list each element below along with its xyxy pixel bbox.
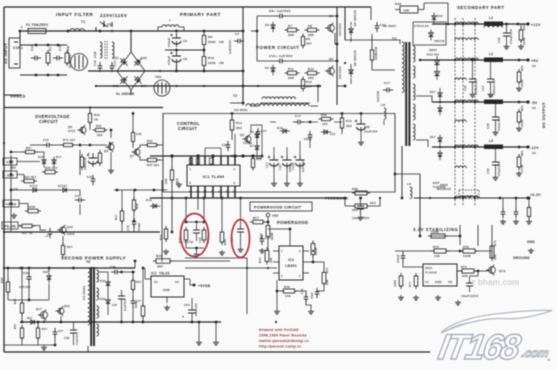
svg-text:C5: C5 (183, 39, 187, 43)
svg-text:L2: L2 (489, 52, 493, 56)
svg-text:GROUND: GROUND (513, 256, 530, 260)
op-amp U2 ISC1 TL431C (423, 264, 457, 286)
svg-text:L: L (21, 25, 23, 29)
resistor R66 (23, 147, 38, 154)
wire secondary +3.3 rail (414, 197, 528, 199)
wire T3 bottom (401, 146, 404, 199)
svg-text:330K: 330K (208, 40, 216, 44)
svg-text:D3?: D3? (27, 317, 33, 320)
wire fuse out (46, 30, 69, 33)
transistor Q13 (486, 265, 506, 276)
resistor R08 (352, 187, 370, 195)
wire overvoltage rail (4, 107, 163, 109)
svg-text:R12: R12 (306, 80, 312, 84)
label 10-0007 (383, 24, 396, 28)
capacitor C35 (357, 197, 364, 215)
label 220V/115V (100, 13, 127, 18)
resistor R12 (301, 77, 312, 92)
terminal +3.3V (526, 193, 541, 200)
ground R24 (219, 250, 225, 255)
capacitor C10 (269, 54, 293, 63)
svg-text:C29: C29 (486, 123, 490, 129)
svg-text:D10: D10 (437, 14, 443, 18)
winding sec -5 (455, 100, 478, 122)
label +5VSB2 (183, 240, 193, 244)
svg-text:14: 14 (218, 191, 222, 194)
ground caps row2 (284, 181, 290, 186)
wire T3 feed (344, 7, 346, 40)
diode D17 (52, 155, 62, 167)
svg-text:1000uF/16V: 1000uF/16V (493, 79, 496, 95)
wire powergood feed (185, 258, 247, 314)
capacitor C46 (45, 228, 52, 238)
ground R49 (518, 44, 524, 49)
resistor R19 (159, 226, 168, 242)
resistor R41 (258, 248, 273, 265)
svg-text:15K: 15K (325, 279, 329, 285)
svg-text:C14: C14 (30, 45, 34, 51)
svg-text:C48: C48 (136, 133, 142, 136)
boxed +3.3V label (3, 200, 19, 207)
wire to bridge (112, 30, 132, 52)
svg-text:D6: D6 (250, 130, 254, 134)
svg-text:Q6: Q6 (68, 125, 72, 129)
wire pson net (18, 226, 63, 246)
junction dots rail3 (499, 197, 518, 200)
terminal +5V (526, 58, 538, 68)
capacitor C20 (278, 155, 292, 172)
wire sb gnd (198, 321, 221, 340)
svg-text:R48: R48 (256, 157, 262, 161)
svg-text:L6: L6 (407, 182, 411, 186)
svg-text:C7: C7 (235, 32, 239, 36)
capacitor C84 (304, 131, 312, 141)
capacitor C13p (376, 81, 393, 102)
svg-text:D4: D4 (265, 66, 269, 70)
op-amp U3 IC3 LM393 (273, 246, 309, 280)
svg-text:35R: 35R (462, 274, 468, 278)
wire q7 (140, 145, 163, 160)
terminal -5V (526, 100, 537, 110)
svg-text:C6: C6 (183, 57, 187, 61)
svg-text:D2?N?: D2?N? (58, 185, 68, 188)
label FEEDBACK (325, 197, 349, 201)
label 5VSB wire (130, 271, 135, 273)
svg-text:10K: 10K (434, 254, 440, 258)
red ellipse highlight 2 (232, 220, 250, 258)
wire vertical bus x337 (336, 7, 338, 105)
svg-text:330K: 330K (208, 61, 216, 65)
diode D14 (321, 130, 336, 136)
wire C26 (360, 112, 363, 140)
wire T1 out (84, 30, 101, 33)
terminal +5V pg (266, 213, 279, 222)
capacitor C26 10uF (355, 119, 378, 134)
svg-text:1C2: 1C2 (330, 133, 336, 136)
diode D18 (38, 155, 46, 167)
label SECONDARY PART (457, 5, 505, 10)
resistor R75 (431, 245, 449, 258)
svg-text:R5?: R5? (42, 328, 48, 331)
svg-text:10K: 10K (285, 294, 291, 298)
svg-text:C38: C38 (64, 337, 70, 340)
svg-text:C84Q: C84Q (304, 138, 312, 141)
svg-text:L4: L4 (489, 94, 493, 98)
label credits line1 (259, 328, 299, 332)
wire caps mid (165, 49, 204, 52)
svg-text:10uF/100V: 10uF/100V (461, 294, 479, 298)
resistor R28 (42, 166, 58, 174)
svg-text:DC OUTPUT: DC OUTPUT (541, 102, 546, 128)
red ellipse highlight 1 (181, 214, 209, 257)
svg-text:F10F040: F10F040 (433, 185, 446, 189)
resistor R53 (61, 243, 73, 258)
transformer T6 (83, 260, 99, 352)
wire filter top row (20, 44, 67, 47)
ground R72 (398, 295, 404, 300)
svg-text:IC3: IC3 (288, 258, 294, 262)
svg-text:C14: C14 (295, 114, 301, 118)
svg-text:A733: A733 (68, 129, 76, 133)
svg-text:R17: R17 (114, 214, 118, 220)
pin numbers under IC (189, 191, 236, 194)
svg-text:C10+ 1uF/50V: C10+ 1uF/50V (269, 54, 293, 58)
boxed PS-ON label (2, 222, 18, 229)
wire R25 in (130, 260, 156, 268)
wire T6 top (63, 267, 88, 270)
resistor R18 (132, 197, 139, 213)
resistor R56 (14, 298, 24, 316)
ground Q5 (108, 168, 114, 173)
svg-text:5A: 5A (532, 106, 536, 110)
resistor R44 (145, 139, 160, 147)
svg-text:R5?: R5? (14, 298, 17, 304)
svg-text:R8: R8 (308, 24, 312, 28)
resistor R11 (285, 67, 300, 80)
resistor R6 (301, 34, 312, 49)
ground TL431 (435, 295, 441, 300)
resistor R71 (490, 240, 497, 261)
resistor R29 (98, 150, 101, 166)
svg-text:R1: R1 (48, 47, 52, 51)
svg-text:470uF/16V: 470uF/16V (498, 161, 501, 176)
junction dots IC bus (170, 154, 254, 157)
resistor R46 (319, 113, 334, 126)
label 10uF/100V (461, 294, 479, 298)
svg-text:10K: 10K (269, 257, 273, 263)
wire ov2 (105, 112, 134, 148)
svg-text:POWERGOOD CIRCUIT: POWERGOOD CIRCUIT (254, 206, 302, 210)
svg-text:560R: 560R (270, 232, 274, 240)
svg-text:1uF/50V: 1uF/50V (302, 161, 305, 172)
svg-text:D1?: D1? (56, 155, 62, 159)
capacitor C32 (19, 271, 32, 289)
wire q5 (110, 152, 112, 168)
ground C35 (358, 215, 364, 220)
svg-text:C64: C64 (184, 303, 190, 307)
junction dots rail-5 (494, 101, 520, 104)
svg-text:L3: L3 (489, 139, 493, 143)
svg-text:R5?: R5? (14, 323, 17, 329)
svg-text:R19: R19 (159, 234, 163, 240)
capacitor C7 (228, 32, 244, 54)
wire caps row (257, 141, 300, 181)
junction dots C7 (242, 30, 245, 88)
capacitor C64 (182, 298, 198, 320)
svg-text:D8 1N4148: D8 1N4148 (353, 50, 357, 66)
resistor R22 (178, 227, 188, 243)
ground 3v3 b (513, 219, 519, 224)
resistor R59 (36, 325, 47, 341)
diode SB02 (437, 183, 451, 191)
connector CON1 (9, 38, 23, 68)
resistor R13 (340, 115, 352, 131)
capacitor C15A (291, 155, 305, 172)
svg-text:8: 8 (190, 182, 192, 185)
label watermark site (471, 277, 519, 287)
svg-text:ISC1: ISC1 (425, 266, 433, 270)
svg-text:+5V?B: +5V?B (183, 240, 193, 244)
wire driver mid (230, 102, 244, 105)
label plus mark (547, 358, 551, 364)
resistor R27 (164, 167, 179, 184)
inductor L2 (484, 52, 503, 62)
svg-text:R58: R58 (1, 277, 4, 283)
svg-text:D9 1N4148: D9 1N4148 (353, 10, 357, 26)
diode D5 (265, 22, 275, 32)
svg-text:C945: C945 (67, 232, 75, 236)
svg-text:10uF/50V: 10uF/50V (125, 298, 127, 311)
svg-text:GO-3000S: GO-3000S (83, 286, 86, 300)
svg-text:100R: 100R (522, 38, 526, 45)
svg-text:5A: 5A (532, 64, 536, 68)
svg-text:IT168: IT168 (436, 327, 524, 367)
wire frame top edge (4, 6, 371, 8)
wire R16 (371, 7, 395, 70)
resistor R43 (395, 2, 424, 13)
winding sec 3.3 (455, 196, 478, 198)
svg-text:INPUT FILTER: INPUT FILTER (56, 12, 94, 17)
svg-text:470uF: 470uF (167, 38, 171, 47)
label 4x 1N5406 (116, 92, 134, 96)
wire primary low rail (96, 85, 318, 87)
svg-text:D21: D21 (113, 56, 119, 60)
wire primary mid rail (88, 70, 243, 72)
wire stab nets (395, 225, 492, 276)
resistor R35 (93, 124, 108, 137)
svg-text:http:∕∕pavouk.comp.cz: http:∕∕pavouk.comp.cz (259, 345, 301, 349)
label SECOND POWER SUPPLY (61, 256, 126, 261)
svg-text:R44: R44 (147, 139, 153, 143)
label OVERVOLTAGE CIRCUIT (35, 114, 70, 124)
svg-text:+5VSB: +5VSB (198, 284, 211, 288)
svg-text:R10: R10 (208, 56, 214, 60)
resistor R51 (517, 105, 524, 127)
wire ctrl mids (261, 121, 342, 158)
wire ov row2 (30, 144, 107, 147)
dashed separator 2 (462, 18, 464, 205)
svg-text:C3?: C3? (222, 144, 228, 147)
terminal -12V (526, 145, 539, 155)
capacitor C41 (87, 175, 95, 185)
svg-text:R25: R25 (156, 254, 162, 258)
resistor R76 560R (428, 230, 448, 238)
svg-text:Q13: Q13 (64, 304, 70, 308)
svg-text:+5V: +5V (531, 59, 539, 63)
wire secondary -12 rail (416, 140, 528, 147)
svg-text:C32: C32 (23, 271, 29, 275)
resistor on pin 1 (189, 158, 192, 164)
svg-text:+5V: +5V (272, 214, 279, 218)
junction dots secondary rails (419, 23, 477, 200)
terminal +5VSB (190, 279, 211, 288)
diode D34 (27, 317, 38, 324)
label C8 (269, 9, 291, 13)
wire feedback node (344, 173, 420, 206)
svg-text:Q5: Q5 (104, 149, 108, 153)
svg-text:5K6: 5K6 (370, 201, 376, 205)
label 3.3V STABILIZING (413, 227, 458, 232)
svg-text:1N4148: 1N4148 (434, 40, 445, 43)
inductor L4 (484, 94, 503, 104)
svg-text:C?5: C?5 (127, 225, 130, 231)
capacitor C40b (131, 297, 142, 307)
inductor LR (381, 103, 386, 125)
wire T3 primary top (345, 40, 400, 44)
svg-text:+C: +C (45, 235, 49, 238)
label credits line3 (259, 339, 309, 343)
resistor R14 (230, 117, 242, 133)
ground caps row1 (271, 181, 277, 186)
wire r66 (10, 151, 44, 157)
resistor R9 (202, 33, 224, 48)
svg-text:78L05: 78L05 (159, 272, 170, 276)
wire secondary +12 rail (432, 23, 528, 25)
wire IC top bus (150, 155, 262, 157)
capacitor C10u (466, 276, 473, 292)
svg-text:C20: C20 (278, 164, 282, 170)
inductor T mag-amp (459, 190, 479, 199)
svg-text:C30: C30 (497, 37, 501, 43)
svg-text:5A: 5A (532, 151, 536, 155)
svg-text:166R/2W: 166R/2W (374, 47, 378, 60)
svg-text:CON1: CON1 (13, 46, 23, 50)
svg-text:C19: C19 (43, 138, 49, 142)
svg-text:+5V: +5V (12, 187, 18, 191)
svg-text:Q7: Q7 (130, 154, 134, 158)
svg-text:C28: C28 (486, 168, 490, 174)
svg-text:C15A: C15A (291, 162, 295, 170)
capacitor C40 (311, 288, 319, 299)
wire R43 right (424, 3, 448, 24)
svg-text:IC1 TL494: IC1 TL494 (203, 174, 225, 179)
svg-text:R46: R46 (321, 113, 327, 117)
logo .com text (520, 346, 550, 360)
svg-text:CIRCUIT: CIRCUIT (178, 126, 197, 131)
label +5V node (12, 187, 18, 191)
svg-text:15R: 15R (493, 254, 497, 260)
resistor R33 (21, 175, 37, 183)
ground C27b (259, 248, 265, 253)
svg-text:39R: 39R (288, 76, 294, 80)
svg-text:100R: 100R (463, 254, 471, 258)
resistor R7 (285, 24, 300, 37)
diode SB04 (420, 48, 440, 80)
ground caps row3 (297, 181, 303, 186)
svg-text:mailto:pavouk@dkomp.cz: mailto:pavouk@dkomp.cz (259, 339, 309, 343)
svg-text:GND: GND (435, 280, 442, 284)
svg-text:DX2-004: DX2-004 (427, 54, 439, 57)
ground R19 (163, 249, 169, 254)
svg-text:R15: R15 (308, 67, 314, 71)
resistor R61 (517, 150, 524, 172)
boxed -12V label (3, 171, 17, 178)
wire second psu rail (4, 267, 135, 269)
svg-text:+: + (182, 315, 184, 319)
svg-text:R33 4K7: R33 4K7 (24, 175, 37, 179)
svg-text:T1: T1 (81, 20, 86, 24)
svg-text:C26: C26 (463, 85, 467, 91)
capacitor C5 470uF (167, 33, 187, 47)
transformer T3 (392, 37, 415, 146)
svg-text:13: 13 (226, 191, 230, 194)
svg-text:C3?: C3? (58, 330, 64, 333)
ground 3v3 a (500, 219, 506, 224)
capacitor C20a (265, 155, 279, 169)
wire bridge diamond (117, 52, 145, 90)
svg-text:SECONDARY PART: SECONDARY PART (457, 5, 505, 10)
svg-text:A30B: A30B (66, 46, 70, 54)
svg-text:R7: R7 (288, 24, 292, 28)
resistor R16 166R (370, 47, 378, 63)
svg-text:GND: GND (527, 240, 535, 244)
capacitor C8 (276, 14, 286, 19)
svg-text:Drawed with PelCAD: Drawed with PelCAD (259, 328, 299, 332)
resistor R60 (135, 301, 145, 319)
resistor R49 (519, 24, 526, 45)
svg-text:D?C4: D?C4 (30, 185, 38, 188)
svg-text:10uF/16V: 10uF/16V (364, 130, 378, 134)
ground IC2 (164, 305, 170, 310)
wire q3 (251, 125, 262, 132)
capacitor C43 (256, 128, 267, 138)
label CONTROL CIRCUIT (177, 121, 200, 131)
diode D22b (58, 185, 70, 192)
svg-text:1W: 1W (219, 61, 224, 65)
boxed -5V label (10, 166, 16, 170)
svg-text:C36: C36 (110, 265, 116, 269)
ground R73 (413, 295, 419, 300)
terminal GND (513, 240, 535, 260)
svg-text:R6?: R6? (136, 281, 142, 284)
resistor R34 (88, 111, 100, 126)
op-amp U1 IC1 TL494 (187, 156, 240, 198)
wire R49 (520, 24, 522, 30)
svg-text:D24: D24 (141, 84, 147, 88)
resistor R73 (409, 273, 418, 289)
svg-text:R5? 1K: R5? 1K (22, 231, 33, 235)
svg-text:8: 8 (234, 182, 236, 185)
junction dots misc (3, 30, 431, 323)
capacitor C37 (112, 290, 127, 311)
svg-text:C23: C23 (198, 237, 202, 243)
wire R bus (175, 30, 205, 73)
wire CON1 to fuse (19, 30, 22, 45)
diode D4 (265, 65, 275, 75)
label INPUT FILTER (56, 12, 94, 17)
ground C29 (493, 130, 499, 135)
winding sec +12 (455, 22, 478, 40)
